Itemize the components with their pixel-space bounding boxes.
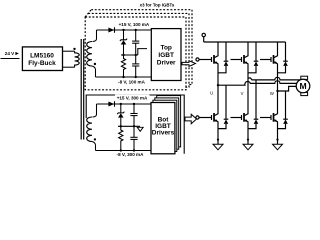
transistor Q1 top IGBT leg1	[212, 42, 219, 73]
capacitor C2 (top section lower)	[135, 55, 137, 64]
node top gate terminal	[196, 58, 199, 61]
capacitor C1 (top section upper)	[135, 30, 137, 41]
node junction top rail / zener	[122, 29, 124, 31]
transformer T1 primary winding	[75, 51, 80, 67]
op block Bot IGBT Drivers U3 stacked sheet 3	[157, 96, 181, 147]
block arrow top driver output	[182, 61, 196, 67]
transformer T1 top secondary winding	[87, 42, 92, 67]
svg-text:Top: Top	[160, 44, 171, 51]
svg-text:Drivers: Drivers	[152, 130, 175, 137]
transformer T1 core	[80, 39, 82, 140]
svg-text:V: V	[241, 91, 244, 96]
resistor R2 (bottom section)	[119, 126, 123, 150]
node junction top rail / cap	[135, 29, 137, 31]
transistor Q3 top IGBT leg3	[271, 42, 278, 73]
wire phase V to motor	[248, 77, 300, 80]
wire bottom gate lead leg3	[260, 117, 271, 119]
svg-text:-8 V, 300 mA: -8 V, 300 mA	[117, 152, 145, 157]
svg-text:+15 V, 300 mA: +15 V, 300 mA	[117, 96, 148, 101]
wire 24V input	[1, 58, 20, 60]
transistor Q5 bottom IGBT leg2	[242, 100, 249, 145]
op block Bot IGBT Drivers U3 front	[151, 103, 175, 154]
node bottom gate terminal	[196, 116, 199, 119]
transformer T1 primary polarity dot	[73, 48, 75, 50]
op block Bot IGBT Drivers U3 stacked sheet 1	[153, 100, 177, 151]
wire top mid rail (common)	[121, 54, 138, 56]
svg-text:IGBT: IGBT	[158, 52, 174, 59]
wire com step stub to driver	[138, 49, 147, 55]
node DC bus terminal	[202, 33, 205, 36]
ground leg3	[273, 144, 283, 150]
node junction -8V rail / resistor	[122, 76, 124, 78]
op block Top IGBT Driver U2	[151, 29, 181, 81]
label -8V 300mA	[115, 152, 147, 157]
dashed module outline front copy	[85, 17, 186, 90]
wire phase U to motor	[218, 81, 297, 85]
wire bottom gate lead leg2	[231, 117, 242, 119]
diode D5 freewheel top leg3	[278, 42, 288, 73]
motor M1 terminal tab top	[301, 76, 308, 79]
node junction bottom rail / cap	[133, 103, 135, 105]
wire top -8V rail	[96, 76, 152, 78]
op block Bot IGBT Drivers U3 stacked sheet 2	[155, 98, 179, 149]
svg-text:Driver: Driver	[157, 59, 176, 66]
diode D3 freewheel top leg1	[218, 42, 228, 73]
wire bottom mid rail (common)	[118, 125, 140, 127]
diode D4 freewheel top leg2	[248, 42, 258, 73]
dashed module corner diagonal	[85, 10, 91, 17]
wire leg2 phase	[247, 73, 249, 100]
svg-text:24 V: 24 V	[5, 51, 15, 56]
diode D1 rectifier (top)	[108, 28, 114, 33]
wire phase W to motor	[278, 86, 297, 91]
svg-text:-8 V, 100 mA: -8 V, 100 mA	[118, 80, 146, 85]
wire top gate lead leg2	[231, 59, 242, 61]
wire bottom secondary lower lead	[92, 142, 96, 151]
diode D2 rectifier (bottom)	[108, 102, 114, 107]
dashed module outline back copy 1	[88, 13, 189, 87]
diode D6 freewheel bottom leg1	[218, 85, 228, 128]
LM5160 Fly-Buck converter U1	[22, 47, 62, 71]
capacitor C3 (bottom section upper)	[133, 104, 135, 113]
node junction bottom rail / zener	[120, 103, 122, 105]
svg-text:x3 for Top IGBTs: x3 for Top IGBTs	[140, 3, 175, 8]
resistor R1 (top section)	[121, 55, 125, 77]
wire DC+ bus rail	[204, 41, 286, 43]
wire top +15V rail	[97, 29, 152, 31]
node leg2 emitter dot	[247, 139, 249, 141]
wire top gate lead leg1	[199, 59, 211, 61]
node junction -8V rail / cap	[135, 76, 137, 78]
svg-text:+15 V, 100 mA: +15 V, 100 mA	[119, 22, 150, 27]
motor M1	[296, 79, 310, 93]
label +15V 300mA	[115, 95, 150, 101]
node junction bottom mid rail / zener	[120, 125, 122, 127]
ground leg1	[213, 144, 223, 150]
node leg1 phase junction	[217, 84, 219, 86]
wire 24V input arrow glyph	[15, 52, 18, 55]
capacitor C4 (bottom section lower)	[133, 126, 135, 137]
wire leg3 phase	[277, 73, 279, 100]
wire primary top stub	[63, 50, 75, 52]
transformer T1 bottom secondary polarity dot	[94, 138, 96, 140]
zener diode Z2 (bottom section)	[120, 104, 122, 113]
transformer T1 bottom secondary winding	[87, 117, 92, 142]
node leg3 phase junction	[276, 90, 278, 92]
zener diode Z1 (top section)	[123, 30, 125, 40]
wire primary bottom stub	[63, 66, 75, 68]
bottom module outer box	[86, 95, 184, 154]
transformer T1 top secondary polarity dot	[94, 63, 96, 65]
transistor Q4 bottom IGBT leg1	[212, 100, 219, 145]
transistor Q2 top IGBT leg2	[242, 42, 249, 73]
wire bottom -8V rail	[96, 150, 152, 152]
diode D8 freewheel bottom leg3	[278, 91, 288, 129]
block arrow bottom driver output	[185, 114, 197, 124]
wire top gate lead leg3	[260, 59, 271, 61]
node junction bottom -8V rail / resistor	[120, 149, 122, 151]
transistor Q6 bottom IGBT leg3	[271, 100, 278, 145]
wire bottom +15V rail	[97, 103, 152, 105]
svg-text:Fly-Buck: Fly-Buck	[28, 60, 56, 67]
node leg3 emitter dot	[276, 139, 278, 141]
dashed module outline back copy 2	[91, 10, 192, 85]
svg-text:LM5160: LM5160	[30, 52, 54, 59]
svg-text:M: M	[300, 81, 307, 91]
ground arrow bottom common	[137, 127, 143, 131]
motor M1 terminal tab bottom	[301, 92, 308, 95]
node junction bottom mid rail / cap	[133, 125, 135, 127]
wire top secondary lower lead	[92, 66, 96, 77]
node junction bottom -8V rail / cap	[133, 149, 135, 151]
node junction mid rail / zener	[122, 54, 124, 56]
wire leg1 phase	[217, 73, 219, 100]
ground leg2	[243, 144, 253, 150]
diode D7 freewheel bottom leg2	[248, 80, 258, 129]
svg-text:W: W	[270, 91, 274, 96]
svg-text:U: U	[210, 91, 213, 96]
wire bottom gate lead leg1	[199, 117, 211, 119]
wire top secondary upper lead	[93, 30, 97, 42]
node junction mid rail / cap	[135, 54, 137, 56]
wire bottom secondary upper lead	[93, 104, 97, 117]
node leg1 emitter dot	[217, 139, 219, 141]
